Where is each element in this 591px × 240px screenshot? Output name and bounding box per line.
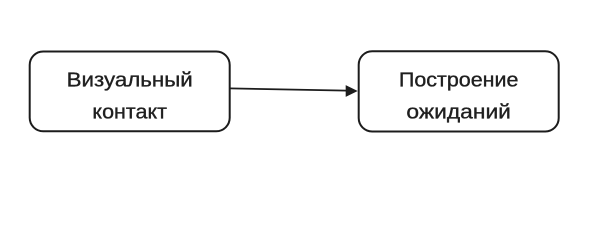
node: Построение ожиданий (right rounded box) — [359, 51, 559, 131]
svg-text:ожиданий: ожиданий — [406, 102, 511, 124]
svg-text:контакт: контакт — [92, 102, 167, 124]
wire: connector arrow from left box to right box — [230, 85, 358, 97]
svg-text:Визуальный: Визуальный — [67, 70, 193, 92]
node: Визуальный контакт (left rounded box) — [30, 52, 230, 132]
svg-text:Построение: Построение — [399, 70, 519, 92]
